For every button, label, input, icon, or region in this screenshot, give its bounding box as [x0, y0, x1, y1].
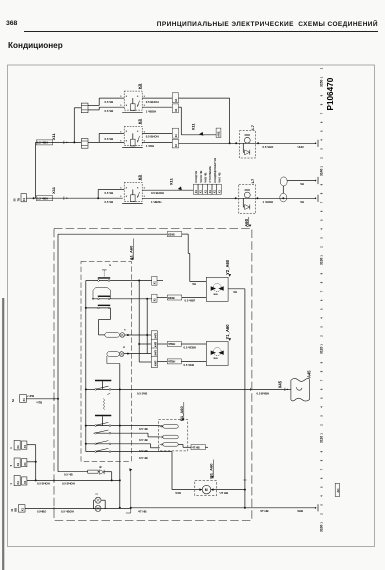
panel A1_A60 dashed boundary — [81, 261, 131, 461]
svg-text:3: 3 — [319, 148, 323, 150]
splice oval lower — [280, 193, 287, 202]
fan switch wire speed 3 — [86, 443, 151, 445]
svg-text:X11: X11 — [190, 123, 195, 131]
svg-text:8: 8 — [126, 105, 128, 107]
svg-text:0.5 ЧВП: 0.5 ЧВП — [185, 299, 196, 303]
svg-text:1.5 ЧВН: 1.5 ЧВН — [37, 197, 48, 201]
upper feed wire — [36, 141, 82, 143]
svg-text:ЧТ НВ: ЧТ НВ — [260, 509, 269, 513]
svg-text:9: 9 — [319, 361, 323, 363]
svg-text:Х4: Х4 — [16, 445, 20, 449]
svg-text:30: 30 — [13, 198, 17, 201]
svg-text:0.5 ВЧОН: 0.5 ВЧОН — [37, 481, 50, 485]
fuse F1 — [74, 107, 81, 109]
blower motor M1_A60 — [195, 481, 217, 496]
svg-text:АКБ: АКБ — [217, 131, 221, 136]
svg-text:Х4П: Х4П — [153, 361, 157, 366]
svg-text:ЧНВ ЧВ: ЧНВ ЧВ — [204, 172, 208, 182]
suppressor L7 no.1 — [239, 131, 255, 158]
svg-text:8: 8 — [319, 459, 323, 461]
relay K5 no.3 — [124, 182, 142, 201]
svg-text:K5: K5 — [137, 83, 142, 89]
svg-text:X11: X11 — [51, 132, 56, 140]
svg-text:3140: 3140 — [319, 168, 323, 176]
AC reference box bottom right — [335, 483, 339, 496]
single connector ground left — [18, 505, 25, 512]
svg-text:ЧНВ: ЧНВ — [213, 294, 218, 296]
svg-text:7: 7 — [319, 468, 323, 470]
svg-text:2: 2 — [319, 246, 323, 248]
svg-text:6: 6 — [122, 346, 126, 348]
blower resistor R1_A60 — [159, 420, 188, 451]
svg-text:Х1: Х1 — [208, 189, 212, 193]
svg-text:A60: A60 — [244, 218, 249, 227]
svg-text:9: 9 — [319, 272, 323, 274]
mode switch contact 1 — [86, 280, 132, 282]
svg-text:7: 7 — [319, 201, 323, 203]
fan switch wiper bar lower — [95, 415, 111, 417]
svg-text:2: 2 — [319, 424, 323, 426]
svg-text:1: 1 — [319, 76, 323, 78]
svg-text:ЧН: ЧН — [233, 290, 237, 294]
svg-text:3120: 3120 — [319, 346, 323, 354]
vertical to fuse F1 — [73, 108, 75, 143]
relay K5-3 output upper to X11 and ref boxes — [142, 189, 193, 191]
svg-text:0.5 ЧНО: 0.5 ЧНО — [263, 145, 275, 149]
svg-text:ЧНО ЧВ: ЧНО ЧВ — [217, 172, 221, 182]
supply trunk inside A60 left — [57, 234, 59, 472]
solenoid valve Y2_A60 — [190, 281, 207, 283]
illumination lamp E6 lower — [107, 352, 119, 357]
svg-text:ЧЧО: ЧЧО — [175, 491, 182, 495]
compressor clutch A45 wavy body — [291, 378, 310, 401]
svg-text:31: 31 — [10, 508, 14, 511]
suppressor L7 no.2 — [239, 185, 256, 214]
svg-text:8: 8 — [126, 196, 128, 198]
svg-text:КОНД ЧВ: КОНД ЧВ — [194, 171, 198, 183]
svg-text:6: 6 — [319, 121, 323, 123]
mode switch contact 2 bent — [93, 288, 111, 299]
motor output wire to return — [211, 489, 245, 491]
resistor output to code box — [178, 443, 183, 445]
svg-text:ЧТВН: ЧТВН — [168, 360, 175, 364]
svg-text:Y1_A60: Y1_A60 — [225, 324, 230, 340]
svg-text:5: 5 — [319, 308, 323, 310]
svg-text:9: 9 — [319, 450, 323, 452]
svg-text:3: 3 — [319, 326, 323, 328]
svg-text:3: 3 — [319, 504, 323, 506]
svg-text:1: 1 — [319, 255, 323, 257]
vertical drop A to code column — [138, 281, 140, 363]
svg-text:0.5 ЧВ: 0.5 ЧВ — [105, 137, 114, 141]
svg-text:Х4: Х4 — [174, 134, 178, 138]
wire to suppressor L7-1 and ground track 3150 — [179, 142, 316, 144]
svg-text:ЧТ НВ: ЧТ НВ — [192, 445, 200, 449]
wire into panel illumination feed — [27, 479, 120, 481]
svg-text:0.5 ВНОН: 0.5 ВНОН — [146, 134, 159, 138]
svg-text:1 ЧВОН: 1 ЧВОН — [151, 200, 161, 204]
svg-text:Х4: Х4 — [174, 108, 178, 112]
svg-text:0.5 ВНОН: 0.5 ВНОН — [146, 100, 159, 104]
svg-text:Х1: Х1 — [153, 281, 157, 285]
connector code column X in A60 — [151, 331, 157, 368]
svg-text:0.5 ЧВ: 0.5 ЧВ — [139, 427, 148, 431]
svg-text:6: 6 — [319, 299, 323, 301]
fan switch wire speed 2 — [94, 432, 148, 434]
svg-text:3: 3 — [319, 237, 323, 239]
svg-text:1: 1 — [319, 522, 323, 524]
svg-text:6: 6 — [319, 388, 323, 390]
svg-text:9: 9 — [319, 94, 323, 96]
connector pair 3 left — [14, 476, 20, 486]
svg-text:Х1: Х1 — [213, 189, 217, 193]
book gutter shadow left edge — [2, 298, 4, 570]
svg-text:4: 4 — [319, 406, 323, 408]
svg-text:R: R — [99, 466, 103, 468]
svg-text:Х1: Х1 — [199, 189, 203, 193]
svg-text:2: 2 — [319, 157, 323, 159]
mode switch contact 4 — [86, 307, 111, 309]
svg-text:0.5 ЧВ: 0.5 ЧВ — [105, 191, 114, 195]
svg-text:ЧТ НВ: ЧТ НВ — [220, 491, 229, 495]
svg-text:L7: L7 — [250, 124, 255, 129]
svg-text:X30В: X30В — [168, 232, 175, 236]
connector pair 2 left — [14, 458, 20, 467]
svg-text:Х1: Х1 — [203, 189, 207, 193]
svg-text:1: 1 — [9, 483, 13, 485]
svg-text:Х4П: Х4П — [153, 333, 157, 338]
svg-text:4: 4 — [319, 139, 323, 141]
svg-text:8: 8 — [137, 187, 139, 189]
splice oval upper with branch — [282, 197, 284, 199]
valve Y2 output wire — [228, 288, 245, 290]
svg-text:0.5 ЧВ: 0.5 ЧВ — [105, 200, 114, 204]
svg-text:Х1: Х1 — [23, 444, 27, 448]
fan switch wiper bar upper — [95, 380, 111, 382]
svg-text:+ЧГВ: +ЧГВ — [27, 394, 34, 398]
svg-text:P106470: P106470 — [326, 77, 335, 110]
single connector supply mid — [20, 395, 27, 403]
junction dot feed split — [33, 197, 35, 199]
svg-text:2: 2 — [319, 67, 323, 69]
svg-text:6: 6 — [319, 477, 323, 479]
svg-text:8: 8 — [137, 140, 139, 142]
svg-text:4: 4 — [319, 317, 323, 319]
svg-text:6: 6 — [319, 210, 323, 212]
svg-text:5: 5 — [319, 486, 323, 488]
svg-text:Х1: Х1 — [21, 507, 25, 511]
svg-text:2: 2 — [319, 335, 323, 337]
svg-text:1: 1 — [319, 166, 323, 168]
svg-text:ЧНОН ЧВ: ЧНОН ЧВ — [199, 170, 203, 182]
svg-text:ЧН: ЧН — [192, 282, 196, 286]
svg-text:0.5 ЧВ: 0.5 ЧВ — [139, 449, 148, 453]
connector supply 30 — [21, 194, 26, 202]
connector pair 1 left — [14, 440, 20, 450]
svg-text:ТВ: ТВ — [17, 198, 21, 202]
fuse F2 — [81, 139, 88, 149]
svg-text:3110: 3110 — [319, 436, 323, 443]
svg-text:7: 7 — [319, 290, 323, 292]
mode switch contact 3 — [93, 298, 131, 300]
svg-text:Y2_A60: Y2_A60 — [225, 259, 230, 275]
column outputs to valve Y1 — [157, 343, 167, 345]
svg-text:5А: 5А — [11, 399, 15, 402]
code box pair 1 — [172, 93, 178, 103]
svg-text:ЧНО: ЧНО — [298, 145, 305, 149]
split to relay K5-1 inputs — [88, 105, 99, 107]
svg-text:Х4П: Х4П — [153, 350, 157, 355]
lamp feed path — [109, 308, 111, 320]
diode and resistor feed from trunk — [58, 471, 88, 473]
svg-text:1 ЧВОН: 1 ЧВОН — [146, 109, 156, 113]
svg-text:8: 8 — [319, 370, 323, 372]
relay K5 no.1 — [124, 91, 142, 110]
svg-text:X45: X45 — [278, 380, 283, 388]
svg-text:2: 2 — [108, 264, 112, 266]
svg-text:8: 8 — [137, 131, 139, 133]
relay K5-3 output lower to L7-2 and splices — [142, 197, 315, 199]
six terminal ref boxes with system name texts — [193, 184, 198, 194]
svg-text:A45: A45 — [307, 370, 312, 378]
svg-text:КОНДИЦИОНЕР ЧВ: КОНДИЦИОНЕР ЧВ — [213, 158, 217, 183]
svg-text:ЧН: ЧН — [300, 182, 304, 186]
svg-text:ЧНВ: ЧНВ — [297, 509, 303, 513]
svg-text:Х1: Х1 — [23, 462, 27, 466]
valves return wire down — [244, 289, 246, 508]
svg-text:8: 8 — [319, 192, 323, 194]
svg-text:ЧНВ: ЧНВ — [213, 358, 218, 360]
split to relay K5-3 inputs — [97, 197, 99, 199]
svg-text:X30В: X30В — [168, 296, 175, 300]
svg-text:ВВ: ВВ — [14, 508, 18, 512]
main ground wire bottom — [25, 507, 131, 509]
svg-text:Х4: Х4 — [174, 98, 178, 102]
svg-text:1.5 ЧВН: 1.5 ЧВН — [37, 141, 48, 145]
svg-text:M: M — [205, 488, 208, 492]
jog wire from panel down to ground — [129, 468, 132, 471]
svg-text:3: 3 — [319, 415, 323, 417]
fan switch wire speed 4 bypass to motor — [86, 451, 172, 453]
ground lamps E pair — [93, 500, 95, 508]
svg-text:0.5 ВЧВН: 0.5 ВЧВН — [257, 391, 270, 395]
clutch feed wire crossing A60 edge — [250, 388, 252, 391]
svg-text:4: 4 — [319, 228, 323, 230]
svg-text:Х4: Х4 — [16, 481, 20, 485]
panel output wire lower to Y2 — [146, 298, 148, 300]
svg-text:8: 8 — [319, 281, 323, 283]
svg-text:Х4: Х4 — [174, 143, 178, 147]
svg-text:1 ЧНОН: 1 ЧНОН — [263, 200, 274, 204]
wire from box1A right to vertical drop — [179, 97, 230, 99]
svg-text:3100: 3100 — [319, 524, 323, 532]
svg-text:0.5 ЧВ: 0.5 ЧВ — [105, 109, 114, 113]
svg-text:5: 5 — [144, 196, 146, 198]
wire code box on feed wire — [36, 196, 52, 201]
relay K5-2 outputs — [142, 132, 172, 134]
svg-text:0.5 ЗЧВ: 0.5 ЗЧВ — [137, 392, 147, 396]
split to relay K5-2 inputs — [98, 133, 100, 142]
svg-text:0.5 ЧВ: 0.5 ЧВ — [139, 456, 148, 460]
svg-text:8: 8 — [126, 131, 128, 133]
wire code box upper feed — [36, 140, 52, 145]
vertical wire to upper feed — [35, 142, 37, 198]
svg-text:5: 5 — [319, 130, 323, 132]
svg-text:K5: K5 — [137, 118, 142, 124]
relay K5 no.2 — [124, 126, 142, 145]
svg-text:7: 7 — [123, 329, 127, 331]
svg-text:X11: X11 — [169, 177, 174, 185]
svg-text:8: 8 — [319, 103, 323, 105]
mechanical link zigzag — [103, 399, 105, 410]
svg-text:4: 4 — [319, 495, 323, 497]
svg-text:Х4: Х4 — [16, 463, 20, 467]
svg-text:ОТОПЛЕНИЕ: ОТОПЛЕНИЕ — [208, 166, 212, 183]
svg-text:8: 8 — [126, 96, 128, 98]
svg-text:5: 5 — [9, 464, 13, 466]
svg-text:0.5 ЧВ: 0.5 ЧВ — [139, 438, 148, 442]
svg-text:ЧТ НВ: ЧТ НВ — [138, 509, 147, 513]
svg-text:0.5 ЧВОН: 0.5 ЧВОН — [61, 509, 74, 513]
relay K5-1 outputs to connector code boxes — [142, 97, 172, 99]
svg-text:4: 4 — [9, 447, 13, 449]
svg-text:0.5 ЧЕВ: 0.5 ЧЕВ — [184, 363, 195, 367]
svg-text:8: 8 — [137, 196, 139, 198]
svg-text:8: 8 — [126, 187, 128, 189]
svg-text:Х1: Х1 — [22, 398, 26, 402]
svg-text:0.5 ЧЕВН: 0.5 ЧЕВН — [184, 345, 197, 349]
svg-text:X11: X11 — [51, 186, 56, 194]
svg-text:2: 2 — [94, 493, 98, 495]
svg-text:Х4П: Х4П — [153, 342, 157, 347]
wire main feed 30 from X11 bottom — [26, 197, 122, 199]
svg-text:8: 8 — [137, 105, 139, 107]
svg-text:ЧН: ЧН — [300, 200, 304, 204]
svg-text:Х1: Х1 — [194, 189, 198, 193]
svg-text:1: 1 — [319, 433, 323, 435]
svg-text:1: 1 — [319, 344, 323, 346]
svg-text:1 ЧОН: 1 ЧОН — [146, 144, 155, 148]
solenoid valve Y1_A60 — [206, 342, 228, 366]
svg-text:0.5 ВНОН: 0.5 ВНОН — [151, 191, 164, 195]
junction dot at fuse branch — [73, 141, 75, 143]
svg-text:0.5 ЧВ: 0.5 ЧВ — [64, 473, 73, 477]
svg-text:3150: 3150 — [319, 79, 323, 87]
svg-text:ЧТВН: ЧТВН — [168, 342, 175, 346]
svg-text:8: 8 — [126, 140, 128, 142]
wire from box1B jog down to X11 stub wire — [179, 106, 182, 108]
lamp ground drop wire — [119, 364, 121, 508]
svg-text:Х2: Х2 — [153, 298, 157, 302]
control unit A60 dashed boundary — [54, 229, 252, 521]
svg-text:8: 8 — [137, 96, 139, 98]
svg-text:L7: L7 — [250, 178, 255, 183]
svg-text:Х1: Х1 — [22, 197, 26, 201]
fan switch wire speed 1 — [86, 425, 160, 427]
svg-text:Х1: Х1 — [23, 480, 27, 484]
svg-text:ЧТВ: ЧТВ — [37, 400, 43, 404]
svg-text:5: 5 — [319, 219, 323, 221]
terminal code box mid — [216, 128, 221, 137]
svg-text:5: 5 — [144, 188, 146, 190]
svg-text:0.5 ЧВ: 0.5 ЧВ — [105, 100, 114, 104]
panel output wire upper to code box1 — [138, 280, 140, 282]
panel common trunk — [85, 281, 87, 452]
svg-text:0.5ЧВО: 0.5ЧВО — [37, 509, 46, 513]
svg-text:5: 5 — [319, 397, 323, 399]
illumination lamp E7 upper — [105, 333, 120, 338]
svg-text:7: 7 — [319, 112, 323, 114]
fan switch wire speed low - to clutch A45 — [86, 388, 284, 390]
code box pair 2 — [172, 128, 178, 138]
svg-text:3130: 3130 — [319, 257, 323, 265]
merge vertical for left connectors — [35, 445, 37, 481]
svg-text:7: 7 — [319, 379, 323, 381]
X30 code box on A60 top edge — [58, 233, 167, 235]
svg-text:0.5 ВЧОН: 0.5 ВЧОН — [62, 481, 75, 485]
svg-text:Х1: Х1 — [217, 189, 221, 193]
svg-text:2: 2 — [319, 513, 323, 515]
svg-text:9: 9 — [319, 183, 323, 185]
svg-text:K5: K5 — [137, 174, 142, 180]
vertical drop B to code column — [146, 299, 148, 354]
